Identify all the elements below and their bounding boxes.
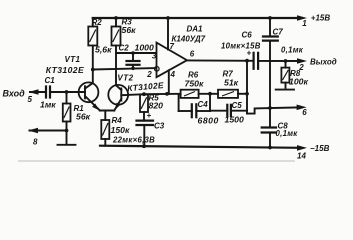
R5 label — [149, 94, 160, 103]
svg-text:+15В: +15В — [311, 13, 331, 22]
R3 value 56k — [122, 25, 137, 35]
pin 7 label — [170, 42, 175, 51]
R4 label — [112, 116, 123, 125]
capacitor C6 — [247, 49, 301, 69]
svg-text:8: 8 — [33, 138, 38, 147]
svg-text:4: 4 — [170, 70, 176, 79]
transistor VT1 — [79, 82, 100, 110]
svg-text:56к: 56к — [76, 112, 91, 122]
node dot R7 right — [245, 92, 249, 96]
svg-text:С1: С1 — [45, 76, 56, 85]
R1 value 56k — [76, 112, 91, 122]
R5 value 820 — [149, 100, 164, 110]
node dot C3 rail — [142, 144, 146, 148]
R1 label — [74, 104, 85, 113]
node dot rail R3 — [114, 16, 118, 20]
node dot R8 top — [284, 59, 288, 63]
DA1 label — [187, 25, 204, 34]
pin 3 label — [152, 52, 157, 61]
node dot R5 top — [142, 92, 146, 96]
svg-text:10мк×15В: 10мк×15В — [221, 41, 261, 50]
pin 8 label — [33, 138, 38, 147]
node dot R1 bottom — [65, 129, 69, 133]
pin 1 label — [302, 19, 307, 28]
node dot pin2 terminal — [155, 67, 160, 72]
C8 value — [276, 129, 299, 138]
svg-text:С2: С2 — [119, 44, 130, 53]
R2 value 5,6k — [95, 45, 112, 55]
svg-text:2: 2 — [146, 70, 152, 79]
+15V label — [311, 13, 331, 22]
C8 label — [278, 122, 289, 131]
R7 label — [223, 70, 234, 79]
pin 2 label — [146, 70, 152, 79]
C4 label — [198, 100, 209, 109]
svg-text:R2: R2 — [92, 18, 103, 27]
capacitor C5 — [210, 105, 247, 116]
wire node A vertical — [209, 94, 211, 111]
wire R2 to VT1 collector — [92, 46, 94, 84]
C3 value — [112, 136, 155, 145]
resistor R7 — [218, 90, 247, 98]
node dot common C7C8 — [268, 106, 272, 110]
svg-text:750к: 750к — [185, 79, 204, 89]
feedback wire VT2 base — [121, 94, 178, 95]
node dot C8 rail — [268, 146, 272, 150]
Vhod label — [3, 89, 26, 99]
svg-text:С7: С7 — [273, 28, 284, 37]
capacitor C2 — [127, 53, 140, 68]
svg-text:100к: 100к — [289, 77, 308, 87]
node dot C2 bottom — [131, 67, 135, 71]
svg-text:Вход: Вход — [3, 89, 26, 99]
C7 label — [273, 28, 284, 37]
pin 6 label — [190, 50, 195, 59]
svg-text:22мк×6,3В: 22мк×6,3В — [112, 136, 155, 145]
svg-text:0,1мк: 0,1мк — [276, 129, 299, 138]
+15V top rail wire — [93, 15, 307, 21]
pin 2 connector label — [298, 63, 304, 72]
svg-text:0,1мк: 0,1мк — [281, 46, 304, 55]
capacitor C7 — [263, 18, 278, 108]
svg-text:56к: 56к — [122, 25, 137, 35]
node dot VT1 collector — [91, 68, 95, 72]
svg-text:6800: 6800 — [198, 116, 219, 126]
output arrow Vyhod — [297, 58, 307, 64]
svg-text:VТ1: VТ1 — [65, 55, 81, 64]
svg-text:КТ3102Е: КТ3102Е — [46, 65, 84, 75]
node dot pin4 — [165, 92, 169, 96]
pin 14 label — [297, 152, 306, 161]
ground symbol right — [276, 89, 294, 91]
svg-text:С3: С3 — [154, 121, 165, 130]
capacitor C8 — [262, 108, 276, 147]
VT2 label — [117, 74, 133, 83]
svg-text:51к: 51к — [224, 78, 239, 88]
resistor R2 — [88, 18, 97, 46]
svg-text:−15В: −15В — [310, 144, 330, 153]
C6 label — [242, 31, 253, 40]
node dot R6/R7/C4 — [208, 92, 212, 96]
capacitor C1 — [46, 87, 85, 98]
svg-text:6: 6 — [190, 50, 195, 59]
R6 value 750k — [185, 79, 204, 89]
svg-text:Выход: Выход — [310, 57, 337, 66]
svg-text:+: + — [147, 111, 152, 120]
input arrow Vhod — [29, 89, 47, 95]
C7 value — [281, 46, 304, 55]
resistor R5 — [140, 94, 148, 121]
ground symbol left — [58, 131, 76, 145]
svg-text:820: 820 — [149, 100, 164, 110]
R3 label — [122, 18, 133, 27]
C3 label — [154, 121, 165, 130]
VT1 label — [65, 55, 81, 64]
Vyhod label — [310, 57, 337, 66]
resistor R8 — [281, 61, 289, 88]
svg-text:6: 6 — [302, 108, 307, 117]
svg-text:1мк: 1мк — [40, 99, 56, 109]
svg-text:С6: С6 — [242, 31, 253, 40]
C2 label — [119, 44, 130, 53]
svg-text:С5: С5 — [232, 101, 243, 110]
svg-text:VТ2: VТ2 — [117, 74, 133, 83]
svg-text:5,6к: 5,6к — [95, 45, 112, 55]
svg-text:14: 14 — [297, 152, 306, 161]
svg-text:5: 5 — [28, 95, 33, 104]
resistor R4 — [101, 120, 109, 146]
transistor VT2 — [108, 85, 128, 111]
bottom -15V rail wire — [100, 145, 307, 151]
svg-text:150к: 150к — [111, 125, 130, 135]
wire C4 branch — [179, 94, 192, 111]
pin 6 connector label — [302, 108, 307, 117]
node dot C2 top — [131, 51, 135, 55]
R8 value 100k — [289, 77, 308, 87]
common wire to pin6 connector — [247, 105, 307, 114]
C2 value 1000 — [135, 43, 154, 53]
R6 label — [188, 71, 199, 80]
pin8 wire arrow — [28, 128, 67, 134]
C5 value 1500 — [225, 115, 244, 125]
svg-text:1: 1 — [302, 19, 307, 28]
R2 label — [92, 18, 103, 27]
node dot rail C7 — [268, 16, 272, 20]
scan artifact bottom — [18, 160, 295, 162]
R8 label — [290, 69, 301, 78]
svg-text:DА1: DА1 — [187, 25, 204, 34]
VT2 type KT3102E — [127, 80, 165, 93]
wire op-amp pin2 input from VT1 collector — [93, 68, 155, 69]
pin 5 label — [28, 95, 33, 104]
DA1 type K140UD7 — [172, 35, 206, 44]
VT1 type KT3102E — [46, 65, 84, 75]
C1 value 1mk — [40, 99, 56, 109]
svg-text:1500: 1500 — [225, 115, 244, 125]
emitter bus wire — [100, 111, 115, 121]
C1 label — [45, 76, 56, 85]
node dot rail pin7 — [166, 16, 170, 20]
R7 value 51k — [224, 78, 239, 88]
capacitor C3 — [137, 111, 154, 147]
wire op-amp pin3 input — [116, 52, 156, 54]
op-amp DA1 — [157, 18, 188, 94]
node dot base VT1 / R1 — [65, 90, 69, 94]
wire output to R7 vertical — [246, 61, 248, 114]
R4 value 150k — [111, 125, 130, 135]
node dot output R7 — [245, 59, 249, 63]
output wire pin6 — [187, 59, 254, 61]
resistor R3 — [112, 18, 121, 46]
capacitor C4 — [192, 104, 210, 117]
wire R3 to VT2 collector — [115, 46, 117, 86]
svg-text:1000: 1000 — [135, 43, 154, 53]
-15V label — [310, 144, 330, 153]
C4 value 6800 — [198, 116, 219, 126]
pin 4 label — [170, 70, 176, 79]
svg-text:R4: R4 — [112, 116, 123, 125]
resistor R6 — [179, 90, 218, 98]
svg-text:С4: С4 — [198, 100, 209, 109]
svg-text:К140УД7: К140УД7 — [172, 35, 206, 44]
resistor R1 — [63, 92, 71, 131]
C5 label — [232, 101, 243, 110]
C6 value — [221, 41, 261, 50]
